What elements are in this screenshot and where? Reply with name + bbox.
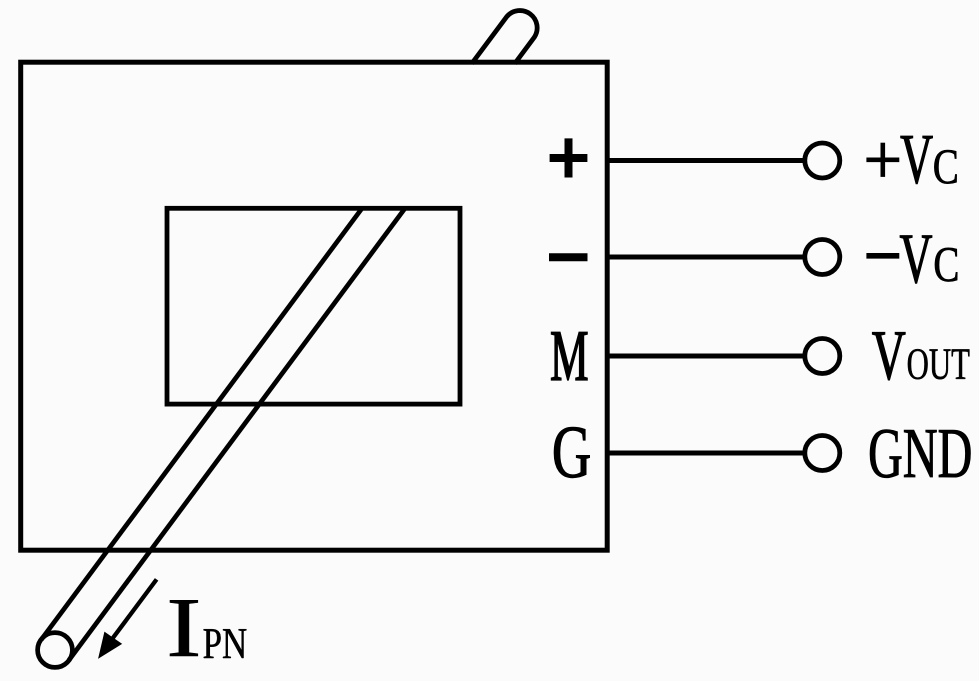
label -Vc : V	[900, 236, 932, 284]
wire pin 4 (G / GND)	[607, 451, 805, 456]
wire pin 1 (+Vc)	[607, 158, 805, 163]
label +Vc : plus sign	[866, 143, 899, 177]
primary conductor upper stub with rounded cap	[472, 11, 537, 64]
magnetic core window	[167, 208, 460, 404]
pin label G (inside body)	[554, 427, 589, 477]
label -Vc : subscript C	[935, 248, 957, 282]
terminal circle 3	[805, 339, 840, 374]
transducer body outline	[21, 62, 608, 550]
terminal circle 1	[805, 143, 840, 178]
wire pin 3 (M / Vout)	[607, 354, 805, 359]
pin label - (inside body)	[549, 253, 588, 261]
label -Vc : minus sign	[866, 253, 899, 259]
primary conductor end face	[38, 633, 73, 668]
label +Vc : V	[901, 136, 933, 184]
wire pin 2 (-Vc)	[607, 255, 805, 260]
label GND	[870, 430, 970, 478]
pin label M (inside body)	[551, 332, 587, 380]
label I_PN	[170, 600, 198, 656]
current direction arrow shaft	[111, 579, 157, 640]
terminal circle 4	[805, 436, 840, 471]
primary conductor through window (right edge)	[69, 209, 405, 660]
current direction arrowhead	[99, 633, 121, 657]
label Vout : subscript OUT	[908, 349, 970, 379]
primary conductor through window (left edge)	[41, 209, 361, 640]
label +Vc : subscript C	[934, 150, 956, 184]
pin label + (inside body)	[550, 138, 588, 177]
label Vout : V	[872, 332, 905, 380]
terminal circle 2	[805, 240, 840, 275]
